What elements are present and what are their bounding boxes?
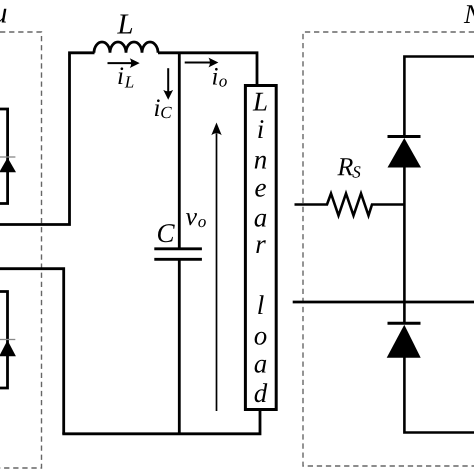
wire: right bottom and corner to rail — [404, 356, 474, 433]
label Linear load (vertical) — [253, 93, 268, 403]
wire: right top rail and corner down — [404, 57, 474, 138]
label N (partial, top-right) — [464, 5, 474, 23]
wire: top rail right segment and corner down to load box — [158, 53, 257, 86]
label L — [117, 15, 132, 34]
arrow io — [185, 58, 219, 68]
wire: mid rail — [293, 301, 474, 304]
diode D1 cathode bar — [0, 156, 15, 158]
arrow iL — [108, 58, 140, 68]
wire: bottom rail and corner up to load box — [62, 410, 260, 434]
label RS — [337, 158, 360, 178]
wire: capacitor branch lower — [178, 259, 181, 434]
label io — [213, 68, 227, 87]
wire: right vertical mid — [403, 166, 406, 324]
label iL — [118, 67, 133, 87]
IGBT leg 2 frame (partial) — [0, 292, 8, 389]
diode D4 cathode bar — [388, 322, 421, 325]
resistor RS — [295, 194, 405, 216]
label C — [158, 224, 175, 242]
diode D3 — [388, 138, 422, 168]
wire: top rail left segment — [68, 51, 94, 54]
diode D3 cathode bar — [388, 135, 421, 138]
wire: leg2 output down to bottom rail — [0, 269, 64, 434]
wire: capacitor branch upper — [178, 52, 181, 249]
diode D2 cathode bar — [0, 339, 15, 341]
label u (partial inverter-voltage label, top-left) — [0, 9, 6, 23]
dashed box: nonlinear load (right, partial) — [303, 32, 474, 466]
diode D2 — [0, 340, 16, 356]
dashed box: inverter (left, partial) — [0, 32, 42, 468]
arrow iC — [163, 68, 173, 100]
diode D1 — [0, 158, 16, 173]
label vo — [186, 213, 206, 227]
load box — [245, 86, 276, 410]
IGBT leg 1 frame (partial) — [0, 109, 8, 204]
label iC — [155, 99, 172, 118]
inductor L — [94, 42, 158, 53]
diode D4 — [387, 325, 421, 358]
capacitor C plates — [154, 249, 202, 259]
arrow vo (load voltage, long up arrow) — [211, 123, 221, 412]
wire: leg1 output up to top rail — [0, 54, 70, 225]
